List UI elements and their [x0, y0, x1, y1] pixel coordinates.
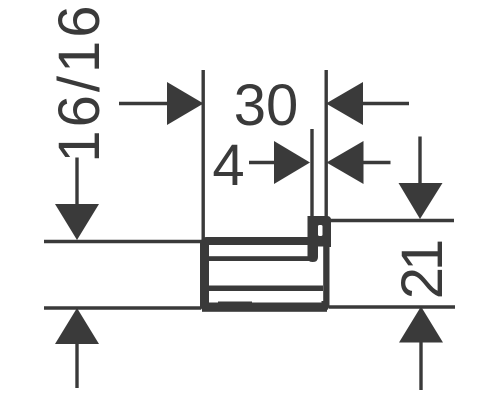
svg-text:21: 21 — [390, 241, 455, 299]
svg-text:4: 4 — [212, 133, 244, 198]
svg-text:30: 30 — [234, 73, 299, 138]
svg-text:16/16: 16/16 — [47, 2, 112, 162]
